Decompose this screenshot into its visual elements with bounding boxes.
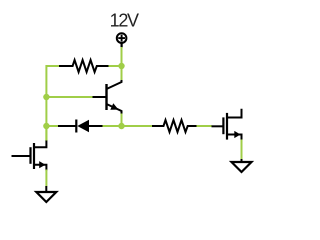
nmos transistor Q2 (left) — [12, 141, 47, 171]
wire node D to R2 — [122, 125, 154, 127]
resistor R2 — [152, 120, 197, 132]
diode D1 — [58, 120, 103, 133]
voltage rail V1 (+12V supply post) — [117, 33, 127, 47]
ground G2 (left) — [36, 186, 56, 202]
wire top-left horizontal (node A to corner) — [46, 65, 60, 67]
ground G1 (right) — [232, 159, 252, 172]
npn transistor Q1 — [93, 80, 122, 114]
node B (left column / base row junction) — [43, 94, 49, 100]
wire diode to node D — [103, 125, 122, 127]
wire supply stem to node A — [121, 47, 123, 66]
wire collector vertical — [121, 66, 123, 81]
wire R2 to Q3 gate — [197, 125, 212, 127]
wire left column vertical — [45, 65, 47, 141]
resistor R1 — [59, 60, 109, 72]
wire node C down to Q2 drain — [45, 126, 47, 141]
svg-text:12V: 12V — [110, 11, 139, 31]
wire Q3 source to ground — [241, 140, 243, 160]
wire diode row left — [46, 125, 58, 127]
label 12V — [110, 11, 139, 31]
wire base row — [46, 96, 92, 98]
node A (junction at supply / R1 / collector) — [118, 63, 124, 69]
nmos transistor Q3 (right) — [212, 109, 242, 141]
wire Q2 source to ground — [45, 170, 47, 187]
node D (emitter / diode / R2 junction) — [118, 123, 124, 129]
node C (left column / diode row junction) — [43, 123, 49, 129]
wire emitter vertical — [121, 112, 123, 127]
